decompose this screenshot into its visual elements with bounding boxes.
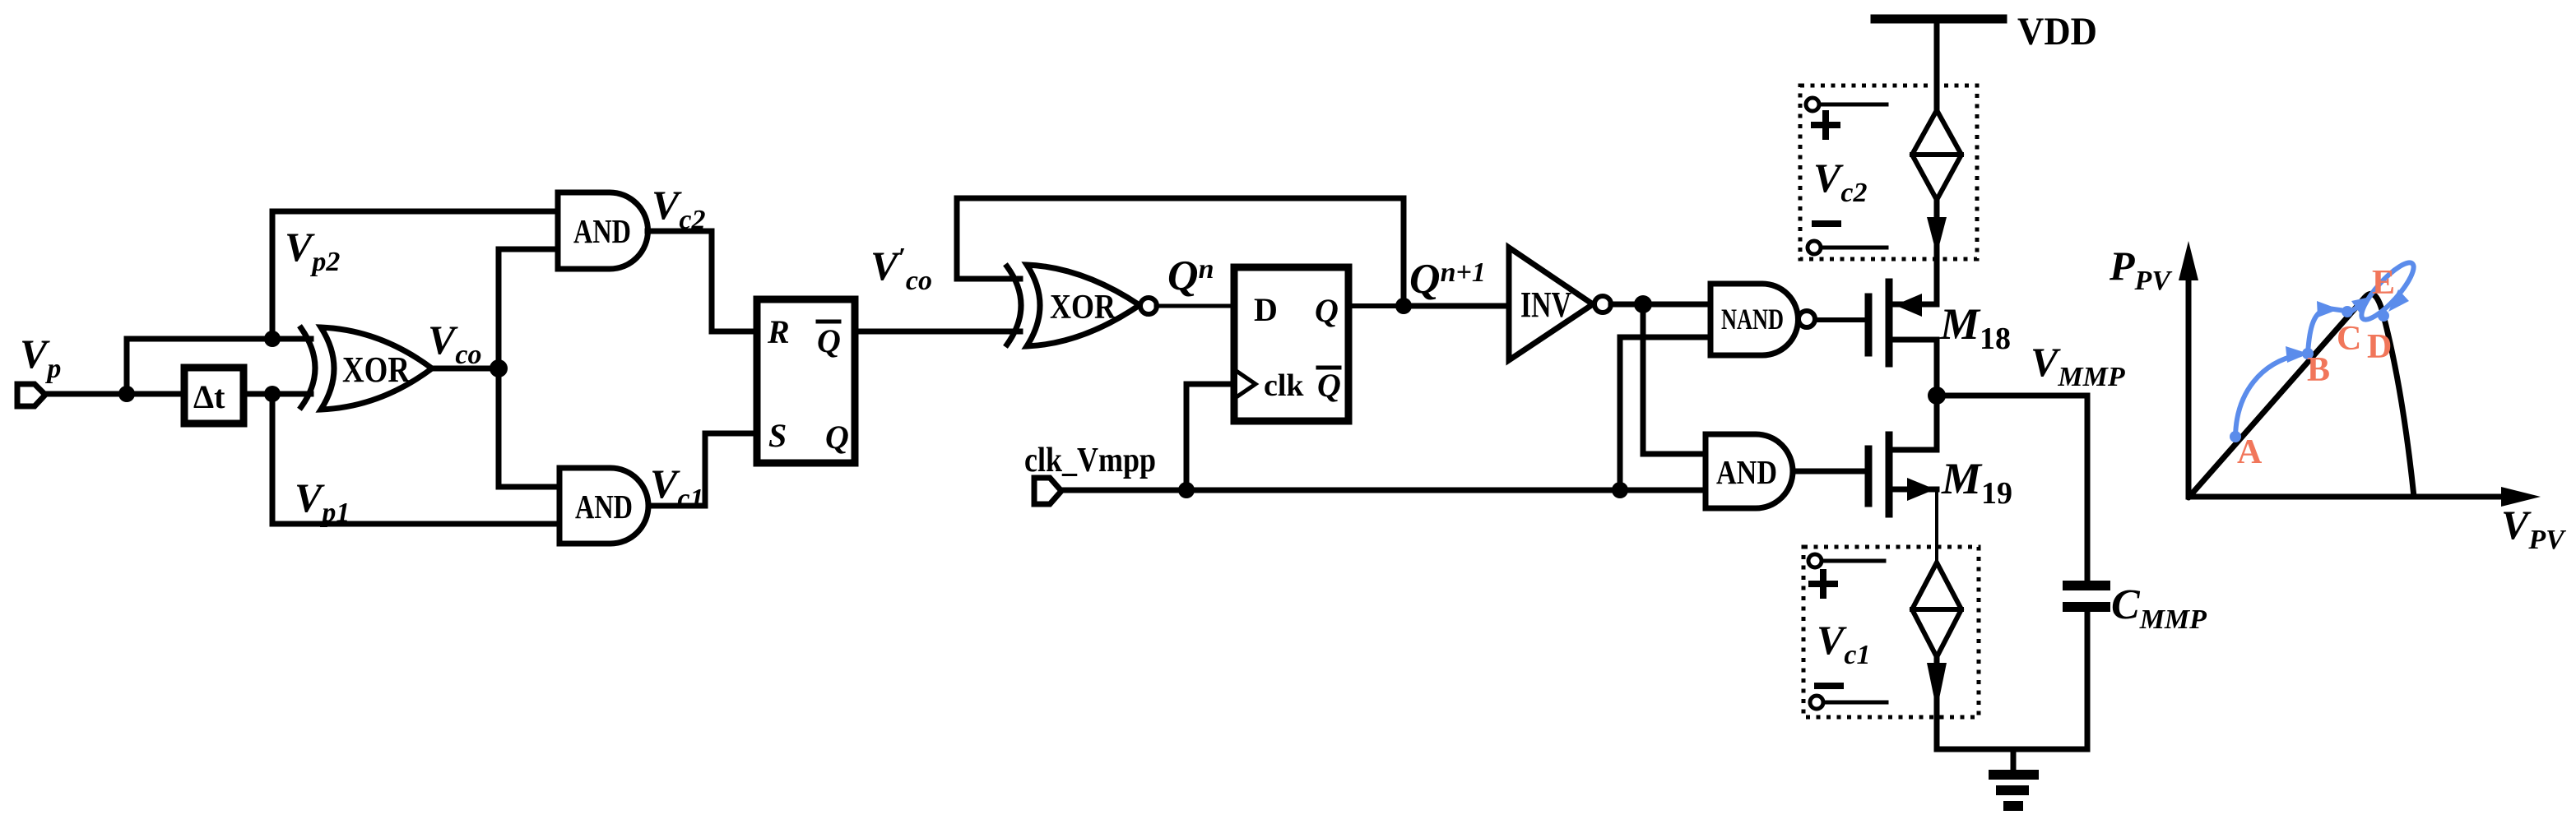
arrow current direction Vc1 — [1927, 663, 1947, 711]
svg-text:clk_Vmpp: clk_Vmpp — [1024, 442, 1156, 479]
svg-text:XOR: XOR — [342, 350, 411, 390]
wire Vp1 to AND2 input 2 — [272, 521, 561, 527]
svg-text:INV: INV — [1520, 285, 1571, 325]
junction XOR input 1 / Vp2 — [264, 331, 281, 347]
terminal Vc2 plus — [1806, 98, 1819, 111]
wire XOR1 output — [432, 366, 499, 372]
AND gate U3 bottom — [559, 468, 648, 544]
svg-text:S: S — [768, 417, 787, 454]
bubble NAND output — [1799, 311, 1815, 327]
wire clk rail — [1061, 488, 1707, 493]
svg-text:AND: AND — [575, 488, 633, 525]
wire delay output to XOR input 2 — [245, 391, 311, 397]
svg-text:D: D — [2367, 328, 2392, 366]
junction XOR input 2 / Vp1 — [264, 386, 281, 402]
junction node VMMP — [1928, 387, 1946, 405]
svg-text:Δt: Δt — [193, 378, 225, 415]
svg-text:Q: Q — [825, 419, 849, 456]
trajectory loop at E — [2355, 257, 2421, 326]
wire clk riser to NAND input 2 — [1620, 337, 1712, 490]
junction clk to DFF — [1178, 482, 1195, 498]
svg-text:Q: Q — [817, 322, 841, 359]
arrow current direction Vc2 — [1927, 217, 1947, 255]
wire Qn XOR2 to D input — [1156, 304, 1231, 308]
wire Vp upper branch vertical — [124, 339, 130, 394]
axis V_PV — [2188, 494, 2503, 500]
svg-text:clk: clk — [1264, 368, 1304, 403]
delay block Δt — [184, 368, 244, 424]
svg-text:C: C — [2337, 320, 2361, 358]
wire M19 source to Vc1 — [1935, 489, 1938, 563]
junction INV output node — [1634, 295, 1652, 313]
controlled source Vc2 dotted box — [1800, 86, 1977, 259]
wire Vc1 to ground rail — [1934, 657, 1940, 749]
transistor M19 — [1934, 396, 1940, 450]
point B — [2302, 348, 2314, 359]
point A — [2230, 431, 2241, 442]
diamond Vc1 controlled source — [1912, 563, 1961, 657]
svg-text:Q: Q — [1317, 367, 1341, 404]
wire INV node to AND3 input 1 — [1643, 304, 1707, 454]
svg-text:AND: AND — [573, 212, 631, 250]
wire VDD to Vc2 source — [1934, 19, 1940, 115]
axis P_PV — [2186, 278, 2192, 497]
wire Vp upper branch to XOR input 1 — [127, 336, 311, 342]
wire Vc2 to M18 source — [1934, 200, 1940, 304]
XOR gate U5 — [1007, 266, 1021, 345]
terminal Vc2 minus — [1815, 220, 1838, 227]
port clk_Vmpp — [1034, 478, 1061, 504]
svg-text:VDD: VDD — [2017, 10, 2097, 53]
junction node Qn+1 — [1395, 298, 1412, 314]
wire Vc1 AND2 output to S — [648, 433, 754, 506]
port Vp — [17, 384, 45, 406]
wire ground rail — [1937, 747, 2087, 752]
wire Vco to AND2 input 1 — [499, 368, 561, 487]
wire Qn+1 to INV — [1404, 303, 1509, 309]
junction node Vco — [490, 359, 508, 377]
wire INV output to NAND input 1 — [1611, 302, 1712, 308]
clk edge triangle — [1237, 372, 1256, 396]
wire VMMP to capacitor — [1937, 396, 2087, 586]
point D — [2378, 310, 2389, 322]
trajectory B to C — [2308, 308, 2346, 354]
junction clk rail / NAND branch — [1612, 482, 1628, 498]
point C — [2342, 306, 2353, 317]
wire clk to DFF clk input — [1186, 384, 1234, 490]
diamond Vc2 controlled source — [1912, 110, 1961, 200]
svg-text:XOR: XOR — [1050, 289, 1116, 326]
wire Vp port to delay block — [41, 391, 183, 397]
D flip-flop U6 — [1234, 267, 1348, 421]
wire Qbar to XOR2 input 2 — [858, 329, 1020, 335]
svg-text:A: A — [2237, 433, 2263, 471]
ground — [2011, 749, 2017, 771]
svg-text:B: B — [2307, 351, 2330, 389]
terminal Vc1 minus — [1817, 683, 1840, 689]
transistor M18 — [1865, 297, 1873, 353]
svg-text:D: D — [1254, 291, 1278, 328]
PV power curve — [2188, 294, 2414, 498]
wire AND3 output to M19 gate — [1793, 469, 1865, 475]
controlled source Vc1 dotted box — [1803, 547, 1979, 717]
svg-text:NAND: NAND — [1721, 303, 1784, 336]
AND gate U9 — [1706, 434, 1793, 508]
SR latch U4 — [757, 299, 855, 463]
wire NAND output to M18 gate — [1815, 317, 1865, 322]
bubble XOR2 output — [1140, 298, 1157, 314]
wire Vc2 AND1 output to R — [647, 231, 754, 331]
wire Vp2 riser — [270, 211, 276, 339]
capacitor CMMP — [2063, 581, 2110, 590]
terminal Vc1 plus — [1808, 554, 1822, 567]
XOR gate U1 — [301, 328, 315, 407]
wire Vco to AND1 input 2 — [499, 249, 559, 368]
wire feedback Qn+1 to XOR2 input 1 — [957, 198, 1404, 306]
svg-text:AND: AND — [1716, 453, 1777, 491]
trajectory C to E arrow — [2350, 303, 2362, 313]
svg-text:E: E — [2372, 264, 2395, 302]
VDD rail — [1875, 15, 2003, 24]
junction Vp split — [118, 386, 135, 402]
svg-text:R: R — [767, 313, 790, 350]
wire DFF Q output to node Qn+1 — [1350, 303, 1404, 308]
bubble INV output — [1594, 296, 1611, 313]
inverter U7 INV — [1509, 248, 1593, 360]
AND gate U2 top — [558, 192, 648, 269]
wire Vp1 dropper — [270, 394, 276, 524]
wire Vp2 to AND1 input 1 — [272, 209, 559, 215]
svg-text:Q: Q — [1315, 292, 1339, 329]
NAND gate U8 — [1710, 284, 1798, 355]
trajectory A to B — [2235, 354, 2300, 437]
